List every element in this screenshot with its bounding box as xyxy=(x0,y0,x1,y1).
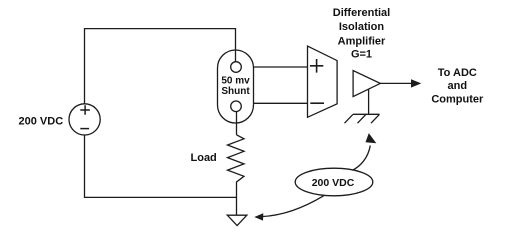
op-amp U1 differential isolation amplifier body xyxy=(308,46,338,117)
arrowhead at load ground xyxy=(254,213,263,220)
shunt body (stadium outline) xyxy=(218,50,254,123)
V1 plus sign xyxy=(80,105,90,114)
svg-text:Isolation: Isolation xyxy=(339,21,385,33)
wire: curved arrow from ellipse to load ground xyxy=(262,196,325,217)
wire left-bottom: source bottom to load bottom xyxy=(85,135,237,197)
svg-text:200 VDC: 200 VDC xyxy=(19,115,64,127)
svg-text:50 mv: 50 mv xyxy=(221,75,250,86)
wire: buffer output xyxy=(380,82,412,84)
shunt terminal circle top xyxy=(231,62,242,73)
resistor Load (zigzag) xyxy=(228,135,245,215)
shunt terminal circle bottom xyxy=(231,101,242,112)
svg-text:Shunt: Shunt xyxy=(221,86,250,97)
svg-text:Load: Load xyxy=(191,152,217,164)
ground (open triangle at load bottom) xyxy=(227,215,247,225)
ground (chassis, hatched) xyxy=(345,114,380,123)
svg-text:200 VDC: 200 VDC xyxy=(312,177,355,189)
svg-text:G=1: G=1 xyxy=(351,48,372,60)
wire: shunt + output to amplifier xyxy=(254,66,308,68)
svg-text:Computer: Computer xyxy=(431,94,484,106)
wire: shunt bottom to resistor xyxy=(236,112,238,135)
svg-text:To ADC: To ADC xyxy=(438,67,477,79)
wire: curved arrow from ellipse to chassis ground xyxy=(353,146,371,171)
wire: buffer to chassis ground xyxy=(368,89,370,114)
op-amp U2 buffer triangle xyxy=(353,71,380,97)
arrowhead to ADC xyxy=(411,79,421,87)
voltage source V1 circle xyxy=(69,104,100,135)
V1 minus sign xyxy=(80,128,89,130)
wire: shunt - output to amplifier xyxy=(254,102,308,104)
svg-text:Differential: Differential xyxy=(333,7,390,19)
wire top: source top to shunt top xyxy=(85,29,236,104)
U1 plus input sign xyxy=(310,59,323,73)
arrowhead at chassis ground xyxy=(366,133,377,143)
U1 minus input sign xyxy=(310,102,324,104)
svg-text:Amplifier: Amplifier xyxy=(338,35,386,47)
svg-text:and: and xyxy=(448,80,468,92)
annotation ellipse 200 VDC xyxy=(295,168,373,196)
